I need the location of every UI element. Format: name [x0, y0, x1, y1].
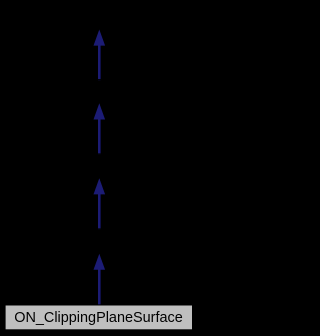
- wire: inheritance arrow ON_PlaneSurface -> ON_Surface: [94, 178, 106, 229]
- wire: inheritance arrow ON_ClippingPlaneSurface -> ON_PlaneSurface: [94, 254, 106, 305]
- wire: inheritance arrow ON_Surface -> ON_Geometry: [94, 103, 106, 154]
- node ON_Surface (hidden box, black on black): [60, 154, 139, 179]
- node ON_Geometry (hidden box, black on black): [60, 80, 139, 104]
- node ON_ClippingPlaneSurface (current class, grey box): [6, 306, 192, 330]
- node ON_Object (hidden box, black on black): [60, 6, 139, 31]
- inheritance graph for ON_ClippingPlaneSurface: [0, 0, 197, 336]
- svg-text:ON_ClippingPlaneSurface: ON_ClippingPlaneSurface: [14, 310, 183, 326]
- wire: inheritance arrow ON_Geometry -> ON_Object: [94, 30, 106, 81]
- node ON_PlaneSurface (hidden box, black on black): [60, 229, 139, 254]
